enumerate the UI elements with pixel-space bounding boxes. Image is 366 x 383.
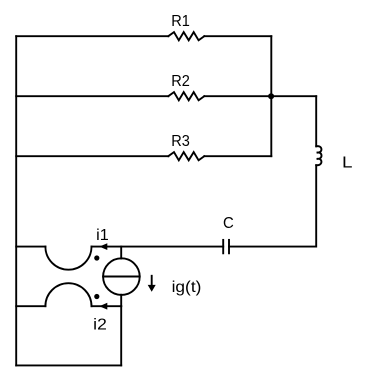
inductor L — [316, 146, 321, 165]
polarity dot top winding — [94, 255, 99, 260]
wire: top coupled branch left lead — [16, 246, 45, 248]
coupled inductor i1 (top arc) — [45, 247, 91, 270]
current source ig(t) circle — [103, 258, 140, 295]
wire: top branch right lead — [204, 35, 271, 37]
resistor R3 — [168, 152, 204, 160]
arrow i2 — [99, 303, 107, 310]
wire: R3 branch right lead — [204, 155, 271, 157]
polarity dot bottom winding — [94, 294, 99, 299]
wire: left vertical rail — [15, 36, 17, 365]
svg-text:C: C — [223, 215, 234, 232]
wire: current source top stub — [120, 247, 122, 259]
wire: R2 branch left lead — [16, 95, 168, 97]
coupled inductor i2 (bottom arc) — [45, 283, 91, 306]
svg-text:ig(t): ig(t) — [172, 279, 202, 296]
wire: right rail upper segment — [315, 96, 317, 146]
wire: right rail lower segment — [229, 165, 316, 246]
wire: right vertical of bottom loop — [120, 306, 122, 365]
arrow ig(t) direction — [148, 285, 156, 292]
svg-text:i1: i1 — [96, 227, 109, 244]
resistor R2 — [168, 92, 204, 100]
wire: top branch left lead — [16, 35, 168, 37]
capacitor C left plate — [222, 240, 224, 253]
current source ig(t) bar — [103, 276, 140, 278]
wire: bottom coupled branch left lead — [16, 305, 45, 307]
svg-text:i2: i2 — [93, 316, 107, 333]
wire: bottom coupled branch right lead — [92, 305, 122, 307]
wire: R2 branch right lead to right rail — [204, 95, 316, 97]
junction node (R2 to vertical) — [268, 93, 274, 99]
wire: bottom loop lower side — [16, 364, 121, 366]
wire: current source bottom stub — [120, 295, 122, 307]
resistor R1 — [168, 32, 204, 40]
svg-text:L: L — [342, 154, 353, 171]
svg-text:R2: R2 — [171, 73, 190, 90]
svg-text:R1: R1 — [171, 13, 190, 30]
wire: ig(t) arrow shaft — [151, 276, 153, 286]
wire: from C left plate to current source tap — [92, 246, 224, 248]
wire: R3 branch left lead — [16, 155, 168, 157]
svg-text:R3: R3 — [171, 133, 190, 150]
wire: vertical joining R1 R2 R3 right ends — [270, 36, 272, 156]
capacitor C right plate — [228, 240, 230, 253]
arrow i1 — [99, 243, 107, 250]
